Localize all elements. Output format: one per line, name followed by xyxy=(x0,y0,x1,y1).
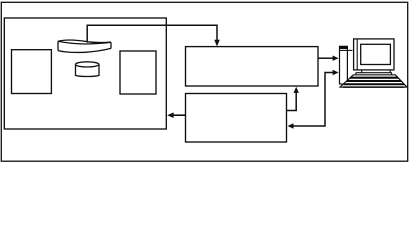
inner right rectangle xyxy=(120,51,156,94)
arrow: bottom box left into big box xyxy=(167,112,185,118)
double arrow: bottom box and computer xyxy=(288,70,339,129)
wire: disk up over to top box with down arrow xyxy=(87,25,220,46)
monitor neck/pedestal (two tiers) xyxy=(356,70,392,75)
big left box (data store) xyxy=(4,18,166,129)
arrow: bottom box up to top box xyxy=(287,87,299,111)
bottom middle box xyxy=(186,94,287,143)
arrow: top box to computer tower xyxy=(318,56,339,61)
flat disk (platter) xyxy=(58,40,111,52)
monitor xyxy=(354,39,394,70)
top middle box xyxy=(186,47,319,86)
keyboard xyxy=(340,75,408,88)
inner left rectangle xyxy=(12,50,52,94)
cylinder (database) xyxy=(76,62,100,77)
outer border frame xyxy=(1,2,407,161)
computer tower xyxy=(339,46,352,84)
